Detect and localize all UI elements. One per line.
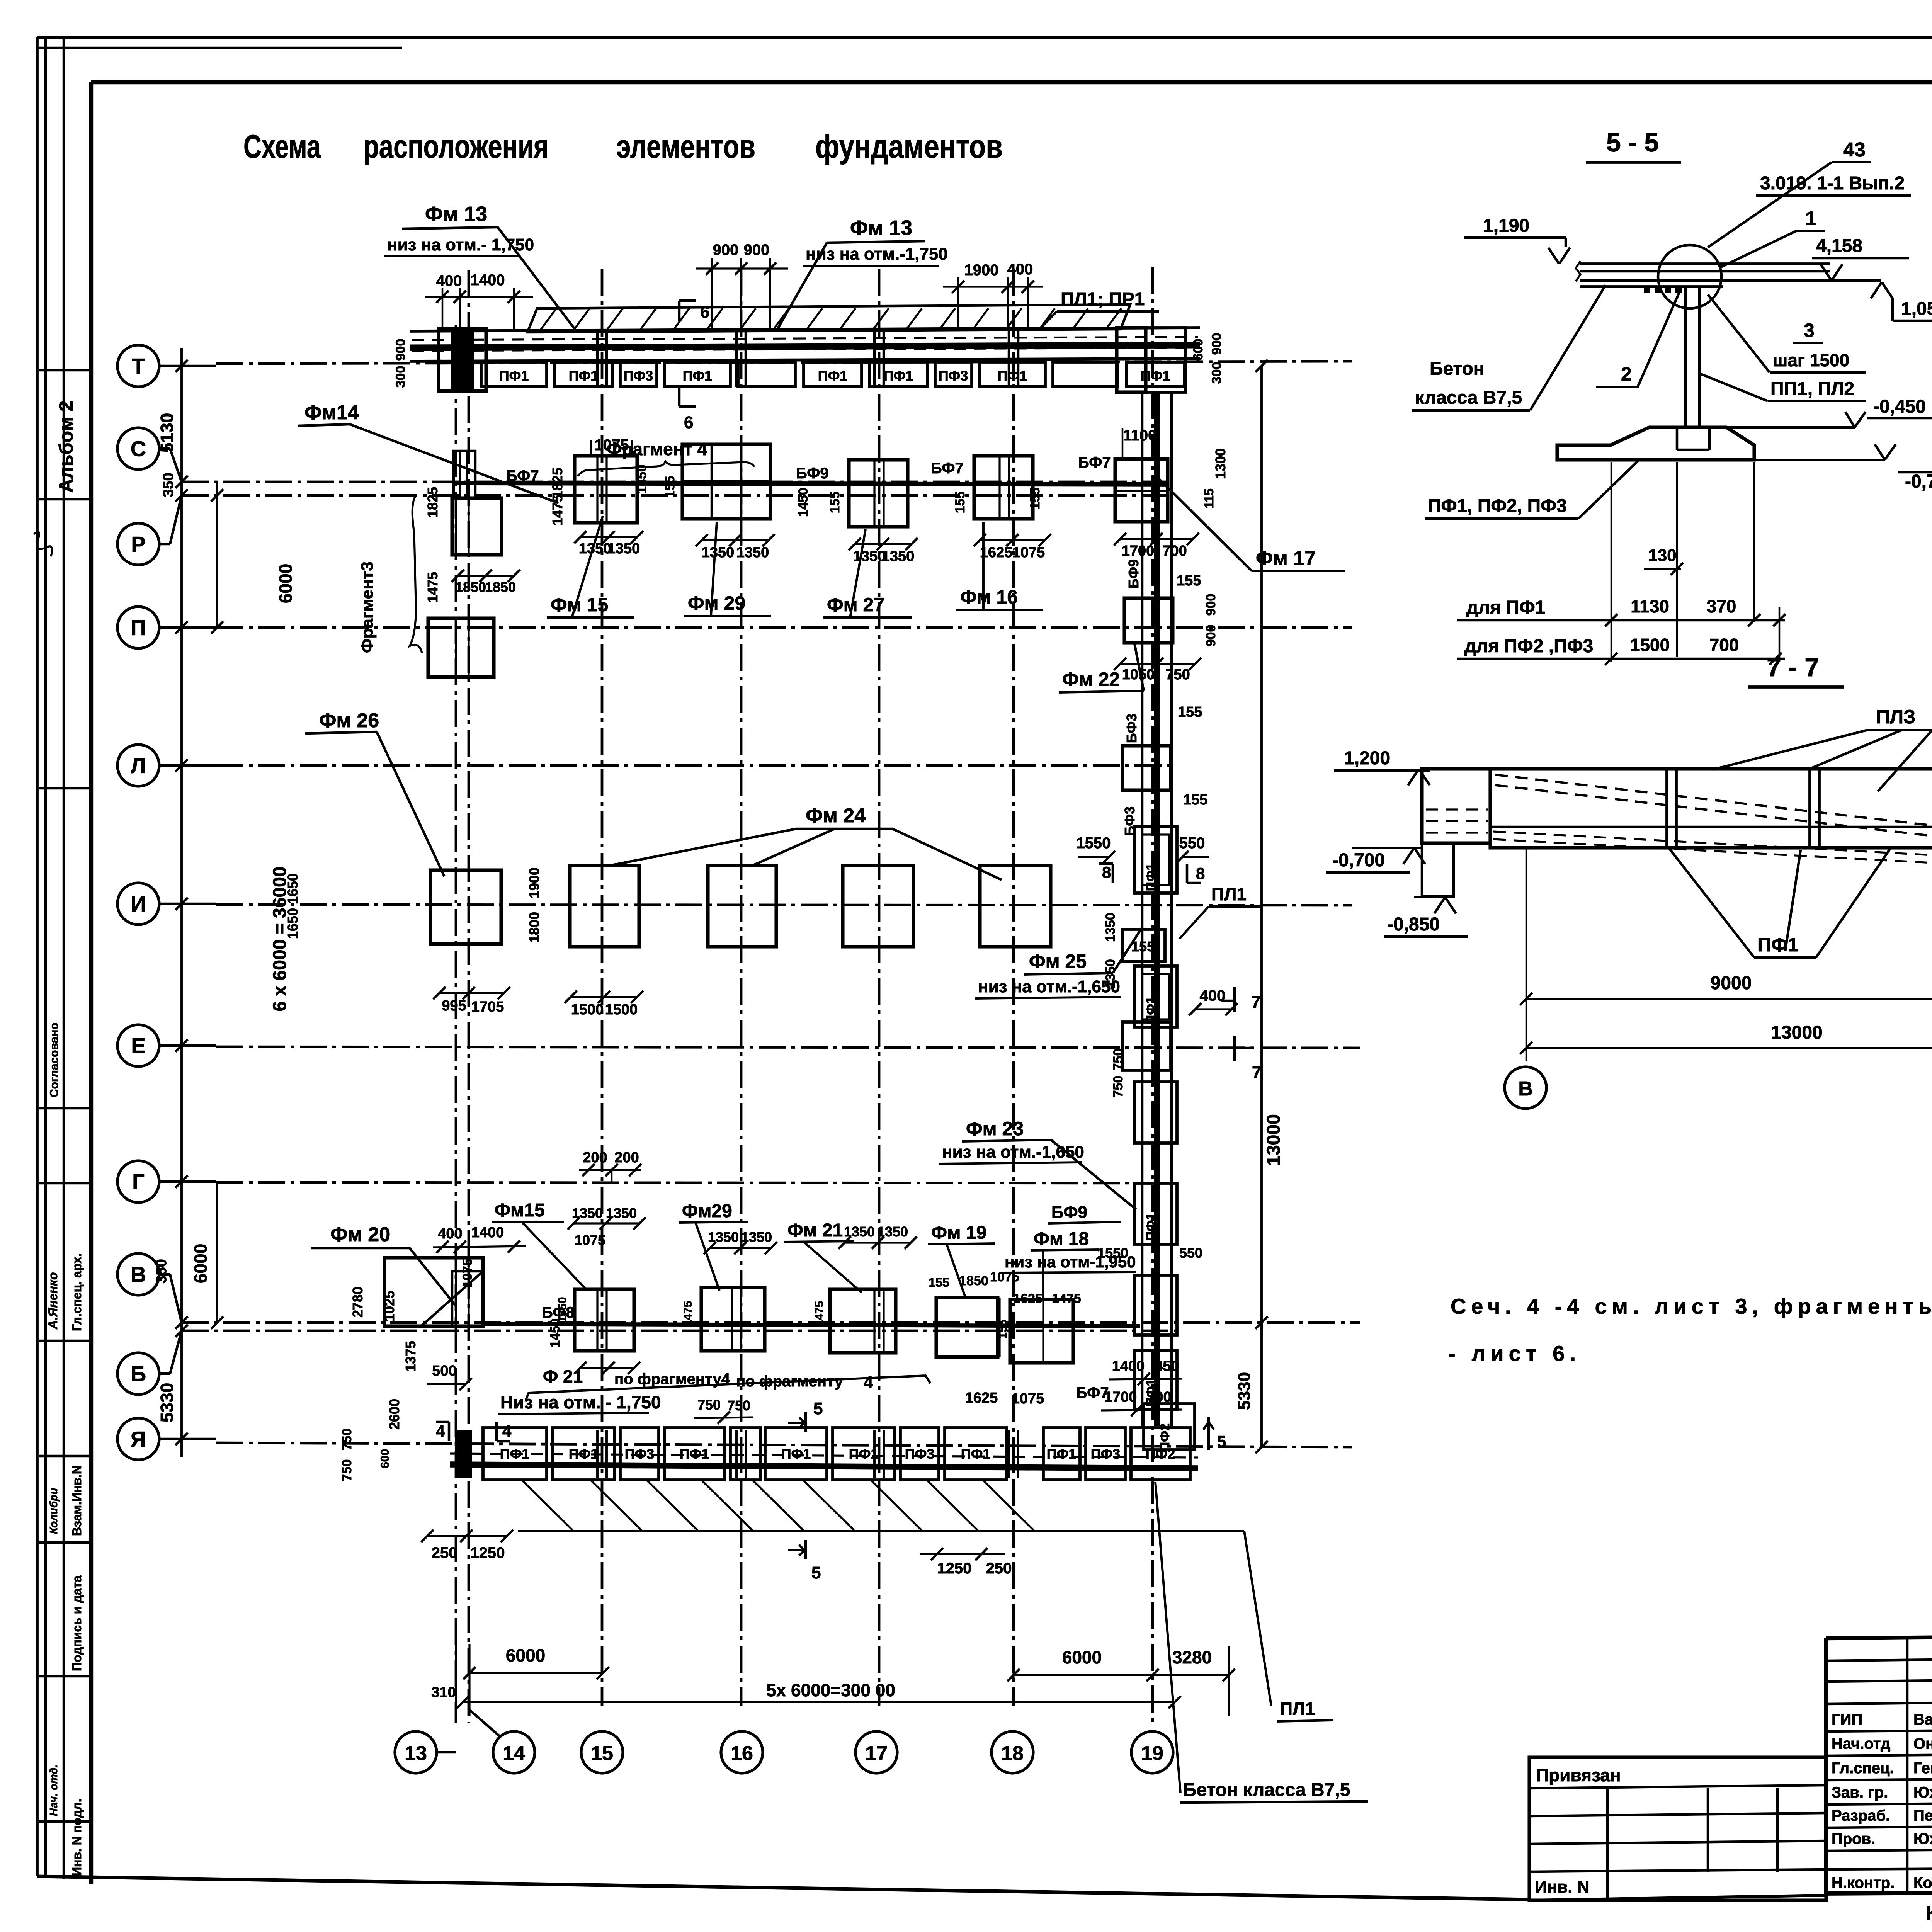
svg-text:Б: Б: [131, 1362, 146, 1386]
section 7-7 left block: [1422, 769, 1490, 843]
bottom strip collector line: [518, 1530, 1244, 1532]
svg-text:Разраб.: Разраб.: [1832, 1807, 1890, 1824]
svg-text:400: 400: [1007, 261, 1033, 278]
svg-text:расположения: расположения: [363, 128, 549, 165]
svg-text:ПФ3: ПФ3: [625, 1446, 655, 1462]
svg-text:6000: 6000: [506, 1645, 545, 1665]
section 7-7 sloped dashed lines: [1495, 775, 1932, 838]
svg-text:Фм 16: Фм 16: [960, 586, 1018, 608]
svg-text:С: С: [131, 437, 146, 461]
svg-text:1700: 1700: [1122, 543, 1155, 559]
svg-text:550: 550: [1179, 835, 1205, 852]
axis 16 vertical line: [740, 269, 743, 1706]
svg-text:Инв. N: Инв. N: [1535, 1878, 1589, 1896]
svg-text:ПФ1: ПФ1: [569, 1446, 599, 1462]
svg-text:1400: 1400: [471, 1225, 504, 1241]
svg-text:155: 155: [929, 1276, 949, 1289]
svg-text:1350: 1350: [736, 544, 769, 561]
section 7-7 main slab: [1490, 769, 1932, 848]
svg-text:750: 750: [340, 1429, 354, 1451]
svg-text:14: 14: [503, 1742, 525, 1765]
svg-text:3.019. 1-1 Вып.2: 3.019. 1-1 Вып.2: [1760, 173, 1905, 194]
svg-text:1450: 1450: [796, 488, 811, 517]
svg-text:Взам.Инв.N: Взам.Инв.N: [70, 1465, 84, 1536]
bottom strip heavy line: [450, 1464, 1198, 1468]
svg-text:155: 155: [953, 492, 968, 514]
axis Г line: [158, 1180, 216, 1183]
svg-text:ПФ1: ПФ1: [499, 368, 529, 384]
axis Е line: [158, 1044, 216, 1047]
section mark 5 top: [804, 1412, 807, 1432]
svg-text:Р: Р: [131, 532, 145, 556]
svg-text:550: 550: [1179, 1245, 1202, 1261]
svg-text:4: 4: [502, 1422, 512, 1440]
svg-text:низ на отм.- 1,750: низ на отм.- 1,750: [387, 235, 534, 254]
svg-text:7 - 7: 7 - 7: [1767, 653, 1819, 682]
svg-text:6: 6: [684, 413, 693, 432]
svg-text:2600: 2600: [386, 1399, 402, 1430]
title block staff row lines: [1826, 1729, 1932, 1731]
svg-text:350: 350: [160, 473, 177, 497]
svg-text:1825: 1825: [425, 487, 440, 518]
top strip panel row: [481, 362, 547, 386]
row C heavy beam line: [452, 483, 1167, 485]
svg-text:Нач.отд: Нач.отд: [1832, 1735, 1890, 1752]
svg-text:9000: 9000: [1711, 973, 1752, 993]
svg-text:Фм 18: Фм 18: [1034, 1229, 1089, 1249]
bottom dimension lines: [469, 1672, 603, 1674]
section 7-7 dims: [1526, 848, 1527, 1061]
svg-text:1,050: 1,050: [1901, 299, 1932, 319]
svg-text:155: 155: [1028, 488, 1043, 510]
svg-text:А.Яненко: А.Яненко: [46, 1272, 60, 1330]
axis П line: [158, 626, 216, 629]
axis circle Г: [117, 1161, 159, 1202]
svg-text:1400: 1400: [471, 272, 505, 289]
foundation Fm14 at axis 13-14 row C: [452, 498, 502, 555]
svg-text:1350: 1350: [702, 544, 735, 561]
svg-text:3280: 3280: [1172, 1647, 1212, 1667]
svg-text:по фрагменту4: по фрагменту4: [614, 1371, 730, 1388]
svg-text:700: 700: [1162, 543, 1187, 559]
svg-text:1350: 1350: [1103, 913, 1118, 942]
svg-text:300: 300: [1209, 362, 1224, 384]
sheet inner frame left: [89, 82, 93, 1884]
svg-text:400: 400: [438, 1226, 462, 1242]
svg-text:Нач. отд.: Нач. отд.: [48, 1765, 60, 1816]
svg-text:1,200: 1,200: [1344, 748, 1390, 769]
foundation square row C axis 15: [575, 456, 637, 523]
svg-text:низ на отм.-1,650: низ на отм.-1,650: [978, 977, 1120, 996]
svg-text:200: 200: [583, 1150, 607, 1166]
sheet outer border left: [36, 37, 39, 1876]
svg-text:600: 600: [379, 1449, 391, 1468]
foundation square row V axis 15: [575, 1289, 634, 1351]
svg-text:ПФ1: ПФ1: [818, 368, 848, 384]
foundation square row C axis 16 (Fm29): [682, 444, 770, 519]
section 5-5 detail circle: [1658, 245, 1721, 308]
svg-text:1900: 1900: [964, 262, 999, 279]
svg-text:БФ9: БФ9: [1051, 1203, 1087, 1222]
svg-text:И: И: [131, 892, 146, 916]
svg-text:БФ9: БФ9: [1126, 559, 1141, 588]
svg-text:1: 1: [1805, 207, 1816, 229]
svg-text:600: 600: [1191, 339, 1206, 361]
axis circle 14: [493, 1731, 535, 1773]
axis circle 19: [1131, 1731, 1173, 1773]
svg-text:1500: 1500: [1630, 635, 1670, 655]
axis circle Е: [117, 1025, 159, 1066]
svg-text:5: 5: [1217, 1432, 1226, 1451]
svg-text:ПФ1: ПФ1: [1144, 997, 1158, 1024]
bottom strip junction blob: [455, 1430, 472, 1478]
corner foundation row C axis 19 (Fm17): [1115, 459, 1168, 522]
svg-text:шаг 1500: шаг 1500: [1773, 350, 1849, 370]
axis circle 17: [855, 1731, 897, 1773]
svg-text:1475: 1475: [682, 1301, 694, 1327]
svg-text:700: 700: [1709, 635, 1739, 655]
svg-text:2780: 2780: [350, 1287, 366, 1318]
svg-text:Фм 24: Фм 24: [806, 804, 866, 827]
svg-text:Фм 19: Фм 19: [931, 1223, 986, 1243]
svg-text:5: 5: [813, 1399, 823, 1418]
foundation square row V axis 16: [701, 1287, 765, 1351]
svg-text:ПФ1: ПФ1: [1144, 863, 1158, 891]
svg-text:Фм 23: Фм 23: [966, 1118, 1024, 1139]
left dimension line: [180, 348, 183, 1457]
svg-text:2: 2: [1621, 363, 1632, 385]
svg-text:-0,700: -0,700: [1332, 850, 1385, 871]
top strip corner block 19: [1146, 328, 1185, 392]
svg-text:700: 700: [1147, 1389, 1171, 1405]
dims 1850 1850 below Fm14: [458, 575, 514, 577]
dims 200 200 above axis Gamma: [579, 1169, 641, 1171]
dims below sq18C: [980, 539, 1045, 541]
svg-text:1400: 1400: [1112, 1358, 1145, 1374]
svg-text:370: 370: [1707, 596, 1736, 616]
svg-text:1475: 1475: [1052, 1291, 1081, 1306]
svg-text:1475: 1475: [425, 572, 440, 603]
svg-text:1650: 1650: [285, 873, 301, 904]
svg-text:ПЛ1: ПЛ1: [1280, 1699, 1315, 1719]
svg-text:Юхтовская: Юхтовская: [1913, 1784, 1932, 1801]
svg-text:7: 7: [1251, 993, 1260, 1012]
svg-text:1500: 1500: [571, 1002, 604, 1018]
section mark 7 upper: [1233, 987, 1236, 1012]
svg-text:200: 200: [614, 1150, 639, 1166]
svg-text:ПФ1: ПФ1: [569, 368, 599, 384]
title block column lines: [1906, 1638, 1909, 1893]
svg-text:750: 750: [1111, 1076, 1126, 1098]
title block bottom line: [1529, 1895, 1826, 1900]
svg-text:ПП1, ПЛ2: ПП1, ПЛ2: [1770, 379, 1854, 399]
axis И line: [158, 903, 216, 905]
bracket F21 po fragmentu: [526, 1376, 930, 1401]
svg-text:115: 115: [1202, 488, 1216, 509]
svg-text:1075: 1075: [1012, 544, 1045, 561]
axis circle И: [117, 883, 159, 925]
svg-text:750: 750: [1165, 667, 1190, 683]
svg-text:1350: 1350: [607, 541, 640, 557]
svg-text:-0,850: -0,850: [1387, 914, 1440, 935]
axis Р line: [158, 543, 170, 546]
svg-text:6000: 6000: [190, 1244, 211, 1283]
svg-text:Бетон: Бетон: [1430, 359, 1485, 379]
svg-text:1625: 1625: [1013, 1291, 1043, 1306]
svg-text:ПЛ1: ПЛ1: [1211, 884, 1247, 904]
svg-text:БФ7: БФ7: [1078, 454, 1111, 471]
section 5-5 beam: [1580, 262, 1830, 265]
svg-text:310: 310: [431, 1684, 456, 1701]
svg-text:450: 450: [1155, 1358, 1179, 1374]
axis 13 vertical line: [455, 325, 457, 1723]
foundation square row C axis 17: [849, 460, 908, 527]
svg-text:1350: 1350: [877, 1224, 908, 1240]
svg-text:900: 900: [393, 339, 408, 361]
svg-text:фундаментов: фундаментов: [815, 128, 1003, 165]
svg-text:1100: 1100: [1123, 427, 1157, 444]
svg-text:ПФ1: ПФ1: [500, 1446, 530, 1462]
svg-text:ПФ1: ПФ1: [1144, 1213, 1158, 1241]
axis В line: [158, 1273, 170, 1276]
axis circle П: [117, 607, 159, 648]
svg-text:155: 155: [663, 476, 677, 498]
svg-text:Фм 22: Фм 22: [1062, 668, 1120, 690]
section mark 5 bottom: [804, 1540, 807, 1559]
svg-text:Котенко: Котенко: [1913, 1874, 1932, 1891]
svg-text:750: 750: [1111, 1049, 1126, 1071]
foundation square row V axis 19 Fm18: [1010, 1299, 1073, 1363]
section 5-5 column: [1684, 287, 1687, 429]
svg-text:Фм 13: Фм 13: [850, 216, 912, 240]
svg-text:для ПФ2 ,ПФ3: для ПФ2 ,ПФ3: [1464, 636, 1593, 656]
svg-text:Фрагмент3: Фрагмент3: [358, 561, 377, 653]
sheet outer border bottom (slanted scan): [37, 1876, 1529, 1900]
right strip vertical band lines: [1141, 392, 1144, 1428]
title block Nkontr row: [1826, 1868, 1932, 1869]
svg-text:1850: 1850: [455, 579, 486, 595]
top strip dims 900 900: [711, 258, 713, 330]
svg-text:ПФ1: ПФ1: [1047, 1446, 1077, 1462]
axis Я line: [158, 1438, 216, 1440]
svg-text:Я: Я: [131, 1427, 146, 1451]
axis Л line: [158, 764, 216, 767]
svg-text:155: 155: [997, 1320, 1009, 1339]
svg-text:900: 900: [744, 241, 770, 259]
foundation square row V axis 17: [830, 1289, 896, 1353]
svg-text:1350: 1350: [1103, 959, 1118, 988]
svg-text:1475: 1475: [813, 1301, 826, 1327]
foundation square row V axis 18 Fm19: [936, 1298, 998, 1357]
svg-text:БФ3: БФ3: [1124, 714, 1139, 743]
dims below bottom strip: [427, 1535, 507, 1537]
axis 18 vertical line: [1012, 269, 1015, 1706]
top strip axis junction blocks: [439, 328, 486, 391]
sheet outer border top: [37, 36, 1932, 39]
svg-text:350: 350: [153, 1259, 170, 1283]
svg-text:13000: 13000: [1264, 1114, 1284, 1165]
svg-text:ПФ1: ПФ1: [998, 368, 1027, 384]
svg-text:элементов: элементов: [616, 128, 755, 165]
svg-text:155: 155: [1177, 573, 1201, 589]
axis Б line: [158, 1372, 170, 1375]
svg-text:П: П: [131, 616, 146, 640]
svg-text:Фм 20: Фм 20: [330, 1223, 390, 1246]
svg-text:1700: 1700: [1104, 1389, 1137, 1405]
axis circle Л: [117, 745, 159, 786]
svg-text:4: 4: [436, 1422, 445, 1440]
svg-text:15: 15: [591, 1742, 613, 1765]
svg-text:18: 18: [1001, 1742, 1024, 1765]
svg-text:Фм 21: Фм 21: [787, 1220, 843, 1241]
svg-text:1500: 1500: [605, 1002, 638, 1018]
svg-text:5130: 5130: [157, 413, 177, 452]
section mark 5 right: [1207, 1417, 1210, 1450]
section 7-7 axis circle B: [1505, 1067, 1546, 1109]
svg-text:Копир. Гороховская: Копир. Гороховская: [1926, 1902, 1932, 1924]
section 7-7 left block foundation: [1422, 843, 1454, 896]
foundation Fm20 complex: [384, 1258, 483, 1326]
svg-text:7: 7: [1252, 1063, 1261, 1082]
svg-text:Ф 21: Ф 21: [543, 1366, 583, 1386]
svg-text:Вайсбанд: Вайсбанд: [1913, 1711, 1932, 1728]
top strip heavy beam line: [410, 345, 1200, 348]
section mark 6 top: [678, 301, 681, 321]
section 5-5 foundation: [1557, 427, 1754, 460]
bottom strip panel row: [483, 1428, 547, 1480]
svg-text:1130: 1130: [1631, 596, 1669, 616]
axis circle С: [117, 428, 159, 469]
svg-text:1550: 1550: [1077, 835, 1111, 852]
svg-text:1,190: 1,190: [1483, 216, 1529, 236]
svg-text:ПФ1: ПФ1: [1757, 934, 1798, 956]
svg-text:1075: 1075: [460, 1259, 475, 1288]
svg-text:ПФ1: ПФ1: [683, 368, 713, 384]
svg-text:Фм 13: Фм 13: [425, 202, 487, 226]
svg-text:1350: 1350: [882, 548, 915, 565]
section 5-5 rebar dots: [1644, 288, 1650, 293]
title block thin rows: [1826, 1658, 1932, 1661]
svg-text:Схема: Схема: [243, 128, 321, 165]
right strip heavy line: [1154, 392, 1160, 1426]
svg-text:1625: 1625: [980, 544, 1013, 561]
svg-text:1075: 1075: [595, 437, 629, 454]
svg-text:750: 750: [697, 1397, 721, 1413]
axis circle Я: [117, 1418, 159, 1460]
svg-text:ПФ1: ПФ1: [680, 1446, 709, 1462]
foundation square row I #1: [430, 870, 501, 944]
svg-text:Инв. N подл.: Инв. N подл.: [70, 1799, 84, 1876]
svg-text:класса В7,5: класса В7,5: [1415, 388, 1522, 408]
svg-text:995: 995: [442, 998, 466, 1014]
svg-text:низ на отм.-1,650: низ на отм.-1,650: [942, 1143, 1084, 1162]
section mark 6 bottom: [678, 387, 681, 406]
svg-text:Т: Т: [132, 354, 145, 378]
dims below sq17C: [855, 543, 912, 545]
svg-text:ПФ3: ПФ3: [624, 368, 653, 384]
svg-text:ПФ1: ПФ1: [961, 1446, 991, 1462]
svg-text:1475: 1475: [549, 495, 565, 526]
svg-text:для ПФ1: для ПФ1: [1466, 597, 1545, 618]
svg-text:250: 250: [986, 1560, 1012, 1577]
svg-text:750: 750: [340, 1459, 354, 1481]
svg-text:43: 43: [1843, 139, 1866, 161]
svg-text:5330: 5330: [1235, 1372, 1254, 1410]
svg-text:6000: 6000: [276, 564, 296, 603]
axis circle 18: [992, 1731, 1033, 1773]
svg-text:1375: 1375: [403, 1341, 418, 1372]
svg-text:13000: 13000: [1771, 1022, 1822, 1043]
svg-text:Низ на отм. - 1,750: Низ на отм. - 1,750: [500, 1392, 661, 1412]
top strip main band: [410, 328, 1200, 331]
axis 17 vertical line: [878, 269, 881, 1706]
svg-text:5x 6000=300 00: 5x 6000=300 00: [766, 1680, 895, 1700]
svg-text:Фм29: Фм29: [682, 1201, 732, 1221]
svg-text:17: 17: [865, 1742, 888, 1765]
axis С line: [158, 447, 170, 450]
axis circle 13: [395, 1731, 437, 1773]
svg-text:ПЛЗ: ПЛЗ: [1876, 706, 1915, 728]
svg-text:155: 155: [1178, 704, 1202, 720]
svg-text:ПФ3: ПФ3: [939, 368, 968, 384]
svg-text:1025: 1025: [381, 1291, 397, 1321]
svg-text:Гл.спец.: Гл.спец.: [1832, 1760, 1894, 1777]
svg-text:1450: 1450: [634, 464, 649, 494]
bottom strip corner block: [1144, 1404, 1195, 1450]
svg-text:Альбом 2: Альбом 2: [55, 401, 77, 493]
svg-text:1075: 1075: [575, 1232, 605, 1248]
axis Т line: [158, 365, 216, 367]
svg-text:Петренко: Петренко: [1913, 1807, 1932, 1824]
svg-text:400: 400: [436, 272, 462, 289]
svg-text:Фм 25: Фм 25: [1029, 951, 1087, 972]
svg-text:1350: 1350: [708, 1229, 739, 1245]
svg-text:1800: 1800: [526, 912, 542, 943]
svg-text:1705: 1705: [471, 999, 504, 1015]
svg-text:900: 900: [1209, 333, 1224, 355]
svg-text:В: В: [131, 1262, 146, 1287]
right strip blocks: [1124, 598, 1173, 643]
svg-text:-0,700: -0,700: [1905, 471, 1932, 492]
svg-text:Фм 26: Фм 26: [319, 709, 379, 732]
axis circle В: [117, 1253, 159, 1295]
svg-text:ГИП: ГИП: [1832, 1711, 1862, 1728]
svg-text:5330: 5330: [157, 1383, 177, 1422]
svg-text:6000: 6000: [1062, 1647, 1102, 1667]
foundation square row I #5: [980, 866, 1051, 947]
svg-text:1650: 1650: [285, 908, 301, 939]
svg-text:1250: 1250: [471, 1544, 505, 1561]
svg-text:16: 16: [731, 1742, 753, 1765]
axis circle Р: [117, 523, 159, 565]
svg-text:4: 4: [864, 1373, 873, 1392]
svg-text:Л: Л: [131, 753, 146, 778]
svg-text:1250: 1250: [937, 1560, 972, 1577]
svg-text:БФ7: БФ7: [931, 460, 964, 477]
svg-text:1850: 1850: [485, 579, 516, 595]
svg-text:300: 300: [393, 366, 408, 388]
svg-text:БФ7: БФ7: [1076, 1384, 1109, 1401]
svg-text:1850: 1850: [959, 1274, 988, 1288]
svg-text:ПФ1, ПФ2, ПФ3: ПФ1, ПФ2, ПФ3: [1428, 496, 1567, 516]
dims below sq16C: [702, 539, 769, 541]
svg-text:Бетон класса В7,5: Бетон класса В7,5: [1183, 1780, 1350, 1800]
svg-text:Гл.спец. арх.: Гл.спец. арх.: [70, 1253, 84, 1331]
svg-text:1075: 1075: [1012, 1391, 1044, 1407]
svg-text:250: 250: [432, 1544, 457, 1561]
svg-text:1350: 1350: [853, 548, 886, 565]
svg-text:Колибри: Колибри: [48, 1488, 60, 1534]
